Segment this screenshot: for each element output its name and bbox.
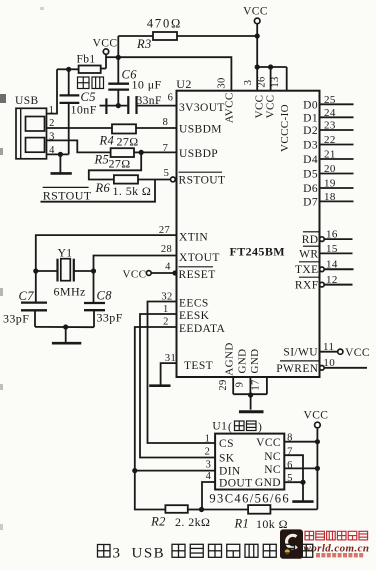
svg-text:13: 13 — [270, 76, 281, 87]
svg-text:20: 20 — [324, 163, 336, 175]
svg-text:4: 4 — [206, 471, 212, 482]
wire data D4 pin 21 — [320, 158, 354, 160]
wire R2 to R1 — [202, 509, 249, 511]
resistor R1 10kohm — [248, 505, 270, 514]
svg-text:11: 11 — [323, 341, 334, 353]
svg-text:SI/WU: SI/WU — [283, 347, 318, 359]
svg-text:RESET: RESET — [179, 269, 216, 281]
wire data D1 pin 24 — [320, 116, 354, 118]
scan artifact marks — [0, 94, 6, 103]
svg-text:NC: NC — [264, 451, 281, 463]
svg-text:30: 30 — [217, 77, 228, 88]
svg-text:2: 2 — [163, 317, 169, 328]
node R3 right / VCC rail — [255, 33, 260, 38]
node U1 pin8 junction — [315, 439, 320, 444]
wire VCC node to C6/R3 node — [106, 56, 118, 58]
node R2/DOUT junction — [199, 507, 204, 512]
svg-text:21: 21 — [324, 149, 336, 161]
svg-text:9: 9 — [234, 382, 245, 388]
svg-text:USB: USB — [15, 95, 39, 107]
svg-text:D7: D7 — [303, 196, 318, 208]
wire crystal caps to ground — [35, 326, 94, 328]
svg-text:28: 28 — [161, 244, 172, 255]
svg-text:25: 25 — [324, 94, 336, 106]
wire data D0 pin 25 — [320, 103, 354, 105]
svg-text:4: 4 — [165, 262, 171, 273]
svg-text:1: 1 — [205, 434, 211, 445]
node crystal left — [33, 268, 38, 273]
svg-text:10 μF: 10 μF — [132, 78, 162, 92]
svg-text:D0: D0 — [303, 99, 318, 111]
svg-text:6: 6 — [168, 93, 174, 104]
wire data D5 pin 20 — [320, 173, 354, 175]
U2 pin label RD — [303, 231, 319, 233]
wire EESK pin 1 — [140, 314, 215, 458]
node crystal right — [91, 268, 96, 273]
ground below U1 — [302, 482, 304, 501]
label citie (magnet core) — [78, 77, 90, 89]
svg-text:DIN: DIN — [219, 466, 241, 478]
resistor R4 27ohm — [112, 124, 136, 133]
resistor R3 470ohm — [118, 35, 153, 37]
svg-text:17: 17 — [250, 379, 261, 390]
watermark logo box — [280, 529, 303, 558]
svg-text:VCC: VCC — [123, 269, 147, 281]
svg-text:PWREN: PWREN — [276, 363, 319, 375]
resistor R5 27ohm — [111, 148, 134, 157]
svg-text:5: 5 — [164, 168, 170, 179]
wire U1 VCC pin 8 — [284, 441, 317, 443]
svg-text:1. 5k Ω: 1. 5k Ω — [113, 184, 152, 198]
wire data D2 pin 23 — [320, 129, 354, 131]
svg-text:D6: D6 — [303, 183, 318, 195]
svg-text:7: 7 — [163, 143, 169, 154]
wire U1 GND pin 5 — [284, 481, 303, 483]
power VCC terminal at SI/WU — [338, 349, 343, 354]
svg-text:Y1: Y1 — [58, 248, 73, 260]
svg-text:SK: SK — [219, 453, 235, 465]
svg-text:D2: D2 — [303, 125, 318, 137]
svg-text:RD: RD — [302, 234, 319, 246]
svg-text:D1: D1 — [303, 112, 318, 124]
svg-text:EESK: EESK — [179, 310, 210, 322]
wire data D6 pin 19 — [320, 187, 354, 189]
U2 ground pins 29,9,17 — [232, 377, 234, 394]
svg-text:3: 3 — [206, 460, 212, 471]
svg-text:RSTOUT: RSTOUT — [179, 174, 226, 186]
svg-text:19: 19 — [324, 178, 336, 190]
watermark text dianzi gongcheng shijie — [305, 531, 314, 540]
svg-text:6MHz: 6MHz — [54, 285, 86, 299]
node USBDP/R5/R6 junction — [139, 150, 144, 155]
svg-text:27: 27 — [159, 225, 170, 236]
svg-text:Fb1: Fb1 — [76, 54, 95, 66]
svg-text:6: 6 — [287, 460, 293, 471]
wire RSTOUT net — [41, 180, 156, 202]
svg-text:EEDATA: EEDATA — [179, 323, 225, 335]
svg-text:VCC: VCC — [265, 95, 277, 119]
wire data D3 pin 22 — [320, 144, 354, 146]
svg-text:14: 14 — [326, 259, 338, 271]
wire USB pin2 D- — [47, 127, 113, 129]
svg-text:31: 31 — [165, 353, 176, 364]
svg-text:VCCC-IO: VCCC-IO — [279, 104, 291, 152]
wire PWREN pin 10 — [320, 366, 325, 371]
svg-text:XTIN: XTIN — [179, 232, 208, 244]
svg-text:1: 1 — [163, 304, 169, 315]
node U1 pin6 junction — [315, 466, 320, 471]
net label RSTOUT — [43, 186, 89, 188]
svg-text:D3: D3 — [303, 140, 318, 152]
svg-text:2: 2 — [205, 447, 211, 458]
ground below crystal — [65, 327, 67, 342]
watermark slogan row — [316, 553, 320, 557]
wire USB pin3 D+ — [47, 140, 112, 152]
svg-text:(: ( — [228, 422, 232, 434]
ground below USB — [59, 154, 61, 172]
svg-text:RSTOUT: RSTOUT — [43, 188, 92, 202]
svg-text:26: 26 — [256, 76, 267, 87]
resistor R2 2.2kohm — [165, 505, 187, 513]
U2 pin label TXE — [299, 261, 319, 263]
svg-text:USBDP: USBDP — [179, 148, 218, 160]
svg-text:FT245BM: FT245BM — [230, 245, 285, 259]
wire U1 NC pin 7 — [284, 455, 303, 482]
svg-text:27Ω: 27Ω — [117, 135, 139, 149]
node U2 ground junction — [248, 392, 253, 397]
wire U1 NC pin 6 — [284, 467, 317, 469]
wire TXE pin 14 — [320, 267, 325, 272]
node U1 pin5 ground junction — [300, 480, 305, 485]
svg-text:12: 12 — [326, 274, 338, 286]
capacitor C5 10nF — [68, 69, 70, 95]
svg-text:10k Ω: 10k Ω — [256, 517, 288, 531]
svg-text:VCC: VCC — [93, 38, 118, 50]
svg-text:AGND: AGND — [224, 342, 236, 375]
crystal Y1 6MHz — [36, 270, 57, 272]
svg-text:VCC: VCC — [345, 347, 370, 359]
svg-text:10nF: 10nF — [71, 103, 97, 117]
wire AVCC feed from VCC node — [118, 57, 231, 90]
resistor R6 1.5kohm — [114, 175, 138, 183]
svg-text:470Ω: 470Ω — [147, 16, 182, 30]
wire RD pin 16 — [320, 237, 325, 242]
U2 pin label RESET — [179, 266, 214, 268]
U2 pin label PWREN — [280, 360, 319, 362]
svg-text:GND: GND — [255, 477, 281, 489]
U2 pin label WR — [303, 245, 319, 247]
IC U1 93C46 body — [215, 434, 284, 490]
U2 pin label RXF — [299, 276, 319, 278]
U2 pin label RSTOUT — [179, 171, 223, 173]
capacitor 33nF on 3V3OUT — [100, 105, 106, 107]
svg-text:3: 3 — [243, 80, 254, 86]
svg-text:AVCC: AVCC — [224, 92, 236, 123]
node 3V3OUT cap junction — [116, 103, 121, 108]
svg-text:): ) — [258, 422, 262, 434]
svg-text:33pF: 33pF — [3, 312, 29, 326]
svg-text:22: 22 — [324, 134, 336, 146]
svg-text:32: 32 — [161, 292, 172, 303]
op-amp n/a; IC U2 FT245BM body — [177, 91, 320, 377]
svg-text:R2: R2 — [150, 515, 166, 529]
svg-text:29: 29 — [218, 379, 229, 390]
wire EEDATA down to R2 — [135, 471, 166, 510]
wire SI/WU pin 11 — [320, 351, 338, 353]
svg-text:DOUT: DOUT — [219, 478, 253, 490]
svg-text:U1: U1 — [212, 421, 227, 433]
capacitor C6 10uF — [117, 57, 119, 83]
wire EECS pin 32 — [148, 302, 216, 444]
svg-text:D5: D5 — [303, 169, 318, 181]
svg-text:93C46/56/66: 93C46/56/66 — [209, 492, 290, 506]
svg-text:C7: C7 — [19, 289, 35, 303]
svg-text:U2: U2 — [176, 77, 191, 91]
node Fb1 left / C5 junction — [66, 67, 71, 72]
svg-text:EECS: EECS — [179, 298, 209, 310]
node RESET pin — [172, 270, 177, 275]
U2 power pin rail (pins 3,26,13) — [257, 66, 287, 68]
ground below U2 — [250, 395, 252, 410]
svg-text:GND: GND — [237, 348, 249, 373]
svg-text:WR: WR — [299, 248, 318, 260]
svg-text:16: 16 — [326, 229, 338, 241]
svg-text:CS: CS — [219, 438, 234, 450]
svg-text:TXE: TXE — [295, 264, 319, 276]
svg-text:VCC: VCC — [243, 6, 268, 18]
capacitor C8 33pF — [93, 271, 95, 302]
wire USB pin4 GND — [47, 153, 69, 155]
svg-text:R3: R3 — [136, 37, 152, 51]
svg-text:XTOUT: XTOUT — [179, 252, 220, 264]
svg-text:R1: R1 — [234, 517, 250, 531]
svg-text:TEST: TEST — [184, 360, 213, 372]
wire XTOUT pin 28 — [94, 256, 177, 272]
svg-text:33pF: 33pF — [97, 311, 123, 325]
wire WR pin 15 — [320, 252, 353, 254]
ground at TEST — [149, 384, 170, 387]
svg-text:2. 2kΩ: 2. 2kΩ — [175, 515, 210, 529]
svg-text:33nF: 33nF — [137, 95, 162, 107]
svg-text:3: 3 — [113, 546, 121, 562]
svg-text:23: 23 — [324, 120, 336, 132]
svg-text:8: 8 — [163, 117, 169, 128]
node USB pin4 ground junction — [58, 152, 63, 157]
svg-text:USBDM: USBDM — [179, 123, 222, 135]
wire data D7 pin 18 — [320, 200, 354, 202]
svg-text:C8: C8 — [97, 289, 113, 303]
node C6/R3/AVCC junction — [116, 55, 121, 60]
wire EEDATA pin 2 — [135, 327, 215, 471]
svg-text:RXF: RXF — [295, 280, 319, 292]
svg-text:15: 15 — [326, 243, 338, 255]
svg-text:VCC: VCC — [256, 437, 281, 449]
svg-text:18: 18 — [324, 191, 336, 203]
svg-text:USB: USB — [132, 546, 166, 562]
svg-text:27Ω: 27Ω — [109, 157, 131, 171]
node crystal ground junction — [63, 324, 68, 329]
svg-text:R6: R6 — [95, 181, 111, 195]
svg-text:3V3OUT: 3V3OUT — [179, 102, 225, 114]
node EEDATA/DIN/R2 junction — [132, 468, 137, 473]
svg-text:VCC: VCC — [304, 410, 329, 422]
wire XTIN pin 27 — [36, 235, 177, 271]
svg-text:D4: D4 — [303, 154, 318, 166]
svg-text:10: 10 — [323, 357, 335, 369]
wire USBDP junction down to R6 — [89, 152, 141, 179]
capacitor C7 33pF — [35, 271, 37, 302]
svg-text:R5: R5 — [94, 153, 110, 167]
wire TEST pin 31 — [161, 363, 177, 385]
wire U1 DOUT to R2 — [202, 482, 215, 510]
svg-text:24: 24 — [324, 107, 336, 119]
pin 5 RSTOUT bubble — [171, 177, 176, 182]
svg-text:NC: NC — [264, 464, 281, 476]
svg-text:GND: GND — [249, 348, 261, 373]
svg-text:R4: R4 — [99, 134, 115, 148]
wire RXF pin 12 — [320, 282, 325, 287]
wire USB pin1 VBUS to Fb1 — [47, 69, 58, 113]
